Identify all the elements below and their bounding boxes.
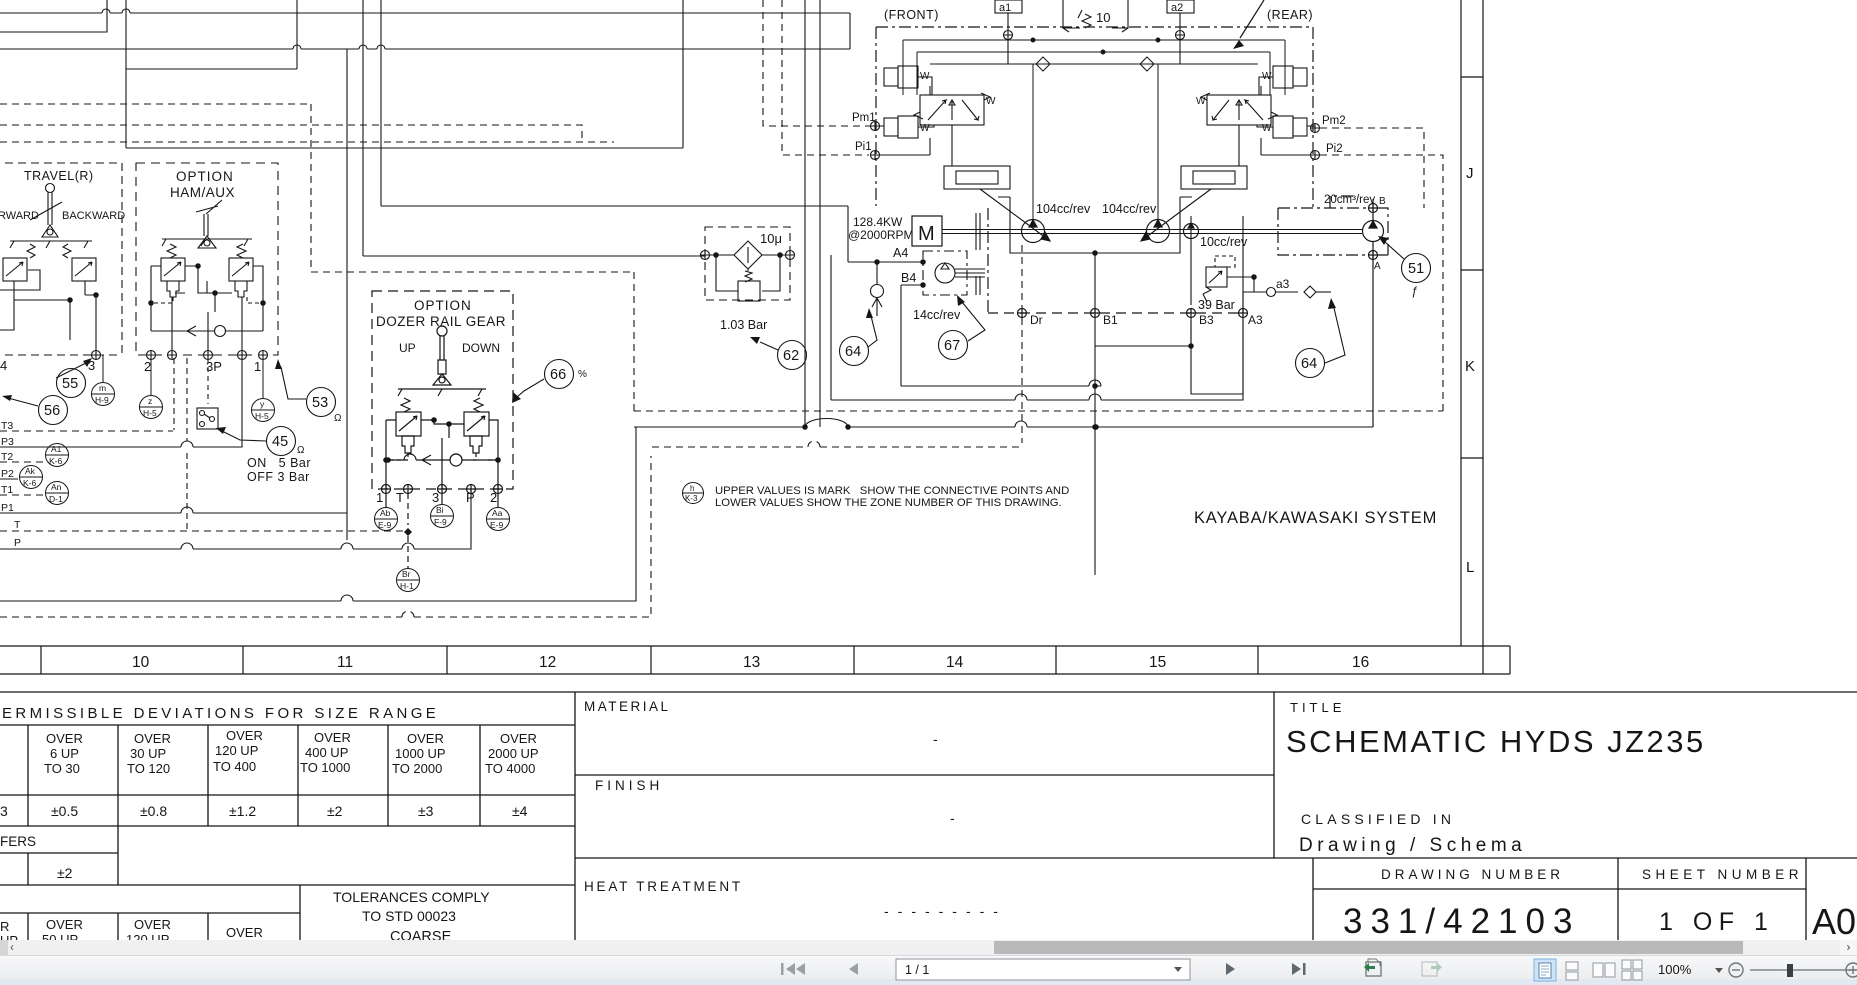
- spring ham right: [237, 244, 246, 258]
- lever dozer: [437, 326, 447, 336]
- svg-text:ON 5 Bar: ON 5 Bar: [247, 456, 311, 470]
- toolbar next page btn: [1226, 963, 1235, 975]
- svg-text:R: R: [0, 919, 9, 934]
- toolbar layout cont-facing: [1622, 960, 1642, 980]
- svg-text:Ω: Ω: [334, 413, 342, 424]
- svg-text:62: 62: [783, 348, 799, 364]
- svg-text:39 Bar: 39 Bar: [1198, 298, 1235, 312]
- spring dozer right: [474, 398, 483, 412]
- svg-text:D-1: D-1: [49, 494, 63, 504]
- toolbar page box: [896, 959, 1190, 980]
- svg-text:53: 53: [312, 395, 328, 411]
- lever TRAVEL: [46, 184, 55, 193]
- valve block TRAVEL(R): [0, 163, 122, 360]
- svg-text:3: 3: [0, 803, 8, 819]
- svg-text:14: 14: [946, 654, 964, 671]
- svg-text:A4: A4: [893, 246, 908, 260]
- svg-text:DRAWING NUMBER: DRAWING NUMBER: [1381, 867, 1564, 882]
- zone letter border column: [1461, 0, 1483, 674]
- spring travel right: [63, 244, 71, 258]
- svg-text:OVER: OVER: [226, 728, 263, 743]
- dashed vertical x634: [633, 272, 635, 411]
- svg-text:±0.8: ±0.8: [140, 803, 167, 819]
- svg-text:DOWN: DOWN: [462, 341, 500, 355]
- svg-text:(REAR): (REAR): [1267, 8, 1313, 22]
- callout 67: [939, 302, 986, 360]
- svg-text:±3: ±3: [418, 803, 434, 819]
- svg-text:LOWER VALUES SHOW THE ZONE NUM: LOWER VALUES SHOW THE ZONE NUMBER OF THI…: [715, 497, 1062, 509]
- dashed bus y411 long: [634, 410, 1443, 412]
- dashed vertical x174 below port T: [173, 358, 175, 430]
- pilot dashed vertical x782 to Pi1: [782, 0, 869, 155]
- svg-text:OPTION: OPTION: [176, 169, 234, 184]
- svg-text:J: J: [1466, 165, 1474, 182]
- ref circle Aa/E-9: [487, 508, 510, 531]
- wire return y427: [634, 419, 1373, 428]
- servo piston rear: [1181, 166, 1247, 189]
- wire h y206 to A4: [381, 205, 848, 207]
- check valve at A4 line: [871, 262, 884, 316]
- svg-text:OVER: OVER: [134, 917, 171, 932]
- pump P2 rear 104cc: [1147, 220, 1170, 243]
- svg-text:6 UP: 6 UP: [50, 746, 79, 761]
- svg-text:50 UP: 50 UP: [42, 932, 78, 940]
- wires ham: [151, 266, 263, 331]
- port a3: [1243, 288, 1298, 314]
- ref circle Br/H-1: [397, 569, 420, 592]
- ref circle y/H-5: [252, 358, 275, 422]
- svg-text:±2: ±2: [327, 803, 343, 819]
- svg-text:331/42103: 331/42103: [1343, 902, 1580, 940]
- svg-text:1000 UP: 1000 UP: [395, 746, 446, 761]
- viewer toolbar: [0, 955, 1857, 985]
- wire vertical x381: [380, 0, 382, 206]
- svg-text:B1: B1: [1103, 313, 1118, 327]
- wire B4: [901, 285, 1101, 386]
- svg-text:Ω: Ω: [297, 445, 305, 456]
- pump P1 front 104cc: [1022, 220, 1045, 243]
- wire T1 dashed: [0, 494, 44, 496]
- wire P: [0, 489, 471, 549]
- ref circle Bi/F-9: [431, 505, 454, 528]
- check valve dozer: [386, 454, 498, 489]
- svg-text:TO 1000: TO 1000: [300, 760, 350, 775]
- ref circle z/H-5: [140, 358, 163, 419]
- svg-text:66: 66: [550, 367, 566, 383]
- svg-text:15: 15: [1149, 654, 1166, 671]
- wire T3 dashed: [0, 358, 471, 549]
- pump group box dash-dot: [876, 27, 1313, 208]
- svg-text:FINISH: FINISH: [595, 778, 663, 793]
- svg-text:K: K: [1465, 358, 1475, 375]
- pressure switch 45: [197, 358, 218, 429]
- svg-text:100%: 100%: [1658, 962, 1692, 977]
- svg-text:±4: ±4: [512, 803, 528, 819]
- svg-text:OFF 3 Bar: OFF 3 Bar: [247, 470, 310, 484]
- svg-text:11: 11: [337, 654, 353, 671]
- svg-text:TO 30: TO 30: [44, 761, 80, 776]
- svg-text:Bi: Bi: [436, 505, 444, 515]
- svg-text:A0: A0: [1812, 901, 1856, 940]
- svg-text:Pm1: Pm1: [852, 112, 876, 124]
- valve block OPTION HAM/AUX: [136, 163, 278, 360]
- svg-text:OVER: OVER: [314, 730, 351, 745]
- svg-text:56: 56: [44, 403, 60, 419]
- svg-text:H-1: H-1: [400, 581, 414, 591]
- svg-text:10μ: 10μ: [760, 231, 782, 246]
- svg-text:UP: UP: [0, 933, 18, 940]
- wire vertical right end of buses: [849, 13, 851, 49]
- svg-text:HEAT TREATMENT: HEAT TREATMENT: [584, 879, 743, 894]
- svg-text:OVER: OVER: [46, 731, 83, 746]
- port Dr: [1018, 309, 1027, 318]
- svg-text:HAM/AUX: HAM/AUX: [170, 185, 235, 200]
- svg-text:Ab: Ab: [380, 508, 391, 518]
- svg-text:-: -: [950, 810, 955, 826]
- svg-text:B: B: [1379, 196, 1386, 207]
- spring dozer left: [401, 398, 410, 412]
- svg-text:OVER: OVER: [134, 731, 171, 746]
- valve dozer left: [396, 412, 421, 436]
- piston ham left: [167, 281, 179, 297]
- valve travel right: [72, 258, 96, 281]
- drive shaft: [942, 230, 1362, 234]
- toolbar prev view btn: [1364, 959, 1381, 976]
- dashed vertical x311: [310, 104, 312, 272]
- filter bypass relief: [716, 255, 780, 291]
- svg-text:W: W: [920, 123, 930, 134]
- svg-text:CLASSIFIED IN: CLASSIFIED IN: [1301, 811, 1455, 827]
- svg-text:TO 120: TO 120: [127, 761, 170, 776]
- port B3: [1187, 309, 1196, 318]
- ref circle An/D-1: [46, 482, 69, 505]
- svg-text:a3: a3: [1276, 277, 1290, 291]
- svg-text:2: 2: [144, 359, 151, 374]
- piston ham right: [235, 281, 247, 297]
- svg-text:55: 55: [62, 376, 78, 392]
- spring ham left: [167, 244, 176, 258]
- svg-text:%: %: [578, 369, 587, 380]
- callout 56: [8, 396, 68, 425]
- svg-text:120 UP: 120 UP: [215, 743, 258, 758]
- svg-text:Pm2: Pm2: [1322, 115, 1346, 127]
- wire P1: [0, 507, 347, 513]
- valve block OPTION DOZER RAIL GEAR: [372, 291, 513, 568]
- valve travel left: [3, 258, 27, 281]
- svg-text:W: W: [1196, 96, 1206, 107]
- wire B3 to B1: [1022, 245, 1193, 443]
- wire T dashed: [0, 530, 408, 532]
- svg-text:COARSE: COARSE: [390, 929, 452, 940]
- callout 66: [517, 360, 574, 398]
- ports dozer: [382, 485, 391, 494]
- wire bottom-left L: [0, 427, 651, 617]
- svg-text:1.03 Bar: 1.03 Bar: [720, 318, 767, 332]
- zone number row: [0, 646, 1510, 674]
- svg-text:B3: B3: [1199, 313, 1214, 327]
- svg-text:H-5: H-5: [143, 408, 157, 418]
- svg-text:RWARD: RWARD: [0, 210, 39, 222]
- svg-text:FERS: FERS: [0, 834, 36, 849]
- svg-text:KAYABA/KAWASAKI SYSTEM: KAYABA/KAWASAKI SYSTEM: [1194, 509, 1437, 527]
- title block frame: [0, 692, 1857, 940]
- node T junction diamond: [404, 528, 412, 536]
- svg-text:BACKWARD: BACKWARD: [62, 210, 125, 222]
- toolbar zoom out: [1729, 963, 1743, 977]
- callout 64 right: [1296, 308, 1346, 378]
- relief valve 10: [1063, 0, 1128, 32]
- svg-text:104cc/rev: 104cc/rev: [1102, 202, 1157, 216]
- port B1: [1091, 309, 1100, 318]
- dashed vertical x187: [186, 358, 188, 531]
- toolbar last page btn: [1292, 963, 1306, 975]
- svg-text:E-9: E-9: [490, 520, 504, 530]
- pilot dashed vertical x763 to Pm1: [763, 0, 869, 126]
- svg-text:UP: UP: [399, 341, 416, 355]
- spring travel left: [27, 244, 35, 258]
- svg-text:E-9: E-9: [378, 520, 392, 530]
- callout 53: [281, 367, 336, 417]
- svg-text:13: 13: [743, 654, 760, 671]
- svg-text:K-6: K-6: [49, 456, 63, 466]
- svg-text:T1: T1: [1, 484, 13, 496]
- svg-text:16: 16: [1352, 654, 1369, 671]
- svg-text:---------: ---------: [884, 903, 1007, 919]
- svg-text:TO 400: TO 400: [213, 759, 256, 774]
- svg-text:P: P: [14, 537, 21, 549]
- svg-text:OVER: OVER: [46, 917, 83, 932]
- pilot dashes ham: [151, 297, 263, 303]
- fan motor: [1363, 199, 1384, 427]
- svg-text:K-6: K-6: [23, 478, 37, 488]
- svg-text:2000 UP: 2000 UP: [488, 746, 539, 761]
- callout 45: [224, 427, 296, 456]
- svg-text:H-9: H-9: [95, 395, 109, 405]
- regulator valve front: [869, 66, 1050, 241]
- svg-text:(FRONT): (FRONT): [884, 8, 939, 22]
- svg-text:12: 12: [539, 654, 556, 671]
- svg-text:400 UP: 400 UP: [305, 745, 348, 760]
- svg-text:P3: P3: [1, 436, 14, 448]
- note ref circle h/K-3: [683, 483, 704, 504]
- svg-text:a2: a2: [1171, 2, 1183, 14]
- piston dozer right: [470, 436, 482, 453]
- wire bus top1: [0, 12, 850, 14]
- ref circle Ab/E-9: [375, 508, 398, 531]
- callout 64 left: [840, 316, 878, 366]
- regulator valve rear: [1141, 66, 1320, 241]
- svg-text:4: 4: [0, 358, 7, 373]
- filter ports: [701, 251, 710, 260]
- valve ham left: [161, 258, 185, 281]
- svg-text:DOZER RAIL GEAR: DOZER RAIL GEAR: [376, 314, 506, 329]
- svg-text:30 UP: 30 UP: [130, 746, 166, 761]
- svg-text:M: M: [918, 223, 935, 245]
- svg-text:1 / 1: 1 / 1: [905, 963, 929, 977]
- svg-text:Pi1: Pi1: [855, 141, 872, 153]
- svg-text:H-5: H-5: [255, 411, 269, 421]
- svg-text:Ak: Ak: [25, 466, 36, 476]
- svg-text:1 OF 1: 1 OF 1: [1659, 908, 1774, 936]
- wire short top3: [0, 0, 107, 32]
- check diamond right: [1140, 57, 1154, 71]
- fan motor circuit box: [1278, 196, 1388, 255]
- filter assembly 10u: [701, 227, 795, 301]
- toolbar zoom in: [1846, 963, 1857, 977]
- wire vertical x820: [819, 0, 821, 427]
- toolbar zoom slider: [1750, 969, 1850, 971]
- wire vertical x805: [804, 0, 806, 427]
- svg-text:20cm³/rev: 20cm³/rev: [1324, 194, 1375, 206]
- drain bus dashed: [988, 208, 1248, 318]
- pump case outline: [998, 197, 1243, 575]
- svg-text:10cc/rev: 10cc/rev: [1200, 235, 1248, 249]
- wire P2: [0, 478, 18, 480]
- svg-text:51: 51: [1408, 261, 1424, 277]
- filter diamond: [734, 241, 762, 269]
- svg-text:SHEET NUMBER: SHEET NUMBER: [1642, 867, 1803, 882]
- svg-text:A: A: [1374, 261, 1381, 272]
- dashed bus y272: [311, 271, 634, 273]
- svg-text:TO 4000: TO 4000: [485, 761, 535, 776]
- pilot pump 14cc: [923, 251, 967, 295]
- svg-text:A1: A1: [51, 444, 62, 454]
- svg-text:±0.5: ±0.5: [51, 803, 78, 819]
- wire vertical x363: [362, 0, 364, 256]
- wire bus top2: [0, 48, 850, 50]
- solenoid box a2: [1167, 0, 1194, 64]
- toolbar layout facing: [1593, 963, 1615, 977]
- solenoid box a1: [995, 0, 1022, 64]
- svg-text:T: T: [14, 519, 21, 531]
- toolbar layout continuous: [1566, 962, 1578, 980]
- svg-text:y: y: [260, 399, 265, 409]
- wire h y148: [126, 147, 683, 149]
- svg-text:A3: A3: [1248, 313, 1263, 327]
- check valve a3: [1304, 286, 1331, 298]
- wire vertical x126: [125, 0, 127, 148]
- svg-text:1: 1: [254, 359, 261, 374]
- svg-text:67: 67: [944, 338, 960, 354]
- svg-text:Br: Br: [402, 569, 411, 579]
- svg-text:@2000RPM: @2000RPM: [848, 228, 914, 242]
- svg-text:64: 64: [845, 344, 861, 360]
- svg-text:2: 2: [490, 490, 497, 505]
- svg-text:P: P: [466, 490, 475, 505]
- piston dozer left: [402, 436, 414, 453]
- svg-text:L: L: [1466, 559, 1474, 576]
- toolbar next view btn: [1422, 962, 1442, 976]
- svg-text:±2: ±2: [57, 865, 73, 881]
- svg-text:128.4KW: 128.4KW: [853, 215, 903, 229]
- svg-text:SCHEMATIC HYDS JZ235: SCHEMATIC HYDS JZ235: [1286, 724, 1706, 759]
- svg-text:14cc/rev: 14cc/rev: [913, 308, 961, 322]
- svg-text:Pi2: Pi2: [1326, 143, 1343, 155]
- wire vertical x683: [682, 0, 684, 148]
- callout 62: [760, 341, 807, 370]
- svg-text:±1.2: ±1.2: [229, 803, 256, 819]
- dashed bus y104: [0, 103, 311, 105]
- svg-text:m: m: [99, 383, 106, 393]
- pilot dashes dozer: [388, 453, 498, 460]
- wire vertical x347 long signal: [346, 49, 348, 540]
- wire B1 vertical: [1094, 253, 1096, 575]
- svg-text:3: 3: [432, 490, 439, 505]
- svg-text:OVER: OVER: [407, 731, 444, 746]
- port A3: [1239, 309, 1248, 318]
- wire dashed y447: [652, 441, 1022, 447]
- pump internal bus lines: [903, 38, 1285, 219]
- ref circle Ak/K-6: [20, 466, 43, 489]
- ref circle A1/K-6: [46, 444, 69, 467]
- svg-text:TRAVEL(R): TRAVEL(R): [24, 169, 94, 183]
- gear pump case: [1191, 216, 1243, 394]
- ports ham: [147, 351, 156, 360]
- pilot dashed to fan Pm2: [1320, 128, 1443, 411]
- motor M and label 128.4KW: [912, 216, 942, 246]
- svg-text:10: 10: [132, 654, 150, 671]
- svg-text:W: W: [920, 71, 930, 82]
- svg-text:W: W: [1262, 123, 1272, 134]
- svg-text:TITLE: TITLE: [1290, 700, 1345, 715]
- svg-text:K-3: K-3: [685, 494, 698, 503]
- svg-text:T2: T2: [1, 451, 13, 463]
- wire h y256 filter feed: [363, 255, 705, 257]
- svg-text:a1: a1: [999, 2, 1011, 14]
- svg-text:OVER: OVER: [226, 925, 263, 940]
- wires dozer: [386, 420, 498, 489]
- wires under travel valves: [0, 270, 96, 355]
- svg-text:TO STD 00023: TO STD 00023: [362, 908, 456, 924]
- svg-text:Dr: Dr: [1030, 313, 1043, 327]
- port 3 travel: [92, 351, 101, 360]
- check valve ham: [151, 326, 263, 336]
- svg-text:1: 1: [376, 490, 383, 505]
- drain vertical Dr dashed: [1021, 245, 1023, 443]
- svg-text:64: 64: [1301, 356, 1317, 372]
- valve dozer right: [464, 412, 489, 436]
- wire dashed bottom-left: [0, 456, 651, 617]
- gear pump 10cc: [1184, 223, 1199, 239]
- svg-text:Drawing / Schema: Drawing / Schema: [1299, 835, 1526, 856]
- svg-text:UPPER VALUES IS MARK SHOW TH: UPPER VALUES IS MARK SHOW THE CONNECTIVE…: [715, 485, 1069, 497]
- dashed bus y142: [0, 141, 614, 143]
- wire vertical x297: [296, 0, 298, 69]
- svg-text:An: An: [51, 482, 62, 492]
- svg-text:45: 45: [272, 434, 288, 450]
- relief valve 39 Bar: [1203, 256, 1256, 302]
- servo piston front: [944, 166, 1010, 189]
- svg-text:120 UP: 120 UP: [126, 932, 169, 940]
- lever HAM: [162, 239, 252, 246]
- svg-text:-: -: [933, 731, 938, 747]
- ref circle m/H-9: [92, 355, 115, 406]
- wire h y69: [126, 68, 297, 70]
- svg-text:OPTION: OPTION: [414, 298, 472, 313]
- svg-text:TO 2000: TO 2000: [392, 761, 442, 776]
- svg-text:ƒ: ƒ: [1411, 284, 1418, 298]
- svg-text:F-9: F-9: [434, 517, 447, 527]
- svg-text:P2: P2: [1, 468, 14, 480]
- wire return y400: [634, 255, 1373, 429]
- wire T2 dashed: [0, 461, 44, 463]
- check diamond left: [1036, 57, 1050, 71]
- toolbar prev page btn: [849, 963, 858, 975]
- toolbar first page btn: [781, 963, 805, 975]
- svg-text:MATERIAL: MATERIAL: [584, 699, 671, 714]
- svg-text:TOLERANCES COMPLY: TOLERANCES COMPLY: [333, 889, 490, 905]
- svg-text:P1: P1: [1, 502, 14, 514]
